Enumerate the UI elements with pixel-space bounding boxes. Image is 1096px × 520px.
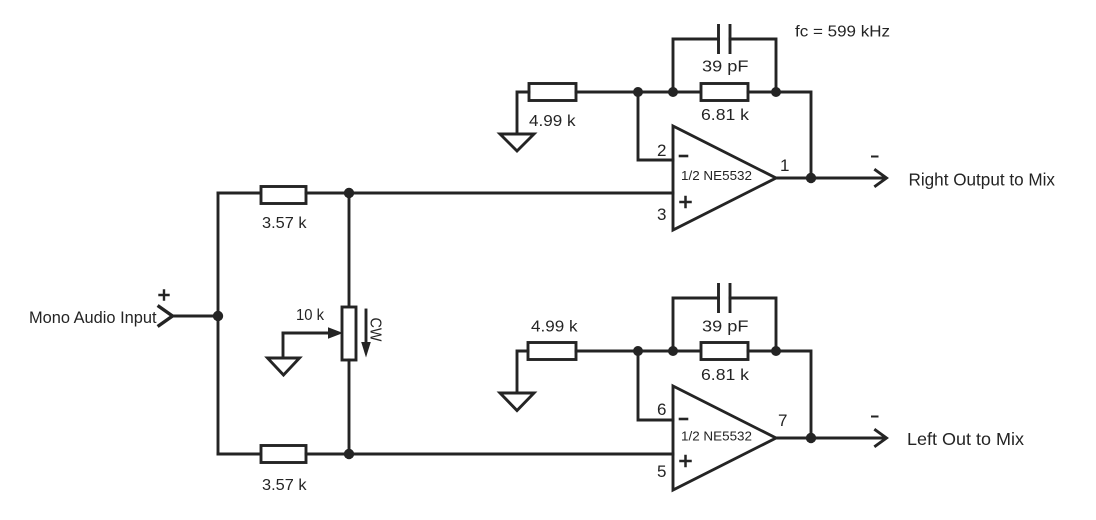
wire bottom rail to op-amp pin 5 <box>306 453 673 456</box>
resistor R5 4.99 k <box>528 343 576 360</box>
wire R5 left to ground <box>517 351 528 393</box>
wire feedback to output <box>748 92 811 178</box>
node feedback junction F <box>771 346 781 356</box>
wiper arrow <box>283 332 329 335</box>
ground (R5) <box>500 393 534 411</box>
svg-text:6.81 k: 6.81 k <box>701 367 750 384</box>
svg-text:7: 7 <box>778 411 787 430</box>
wire R3 left to ground <box>517 92 529 134</box>
resistor R1 3.57 k <box>261 187 306 204</box>
svg-text:1/2 NE5532: 1/2 NE5532 <box>681 168 752 183</box>
svg-text:1/2 NE5532: 1/2 NE5532 <box>681 429 752 444</box>
svg-text:1: 1 <box>780 156 789 175</box>
wire output with arrow <box>776 437 883 440</box>
node feedback junction E <box>668 346 678 356</box>
input polarity plus <box>160 291 169 300</box>
wire output with arrow <box>776 177 883 180</box>
svg-text:Left Out to Mix: Left Out to Mix <box>907 429 1024 449</box>
wire to pin 2 <box>638 92 673 160</box>
op-amp U1A <box>673 126 776 230</box>
dash artifact <box>872 156 878 158</box>
wire pot bottom lead <box>348 360 351 454</box>
node feedback junction D <box>633 346 643 356</box>
resistor R4 6.81 k <box>701 84 748 101</box>
potentiometer VR1 10 k <box>342 307 356 360</box>
svg-text:Right Output to Mix: Right Output to Mix <box>909 170 1056 190</box>
node feedback junction B <box>668 87 678 97</box>
resistor R3 4.99 k <box>529 84 576 101</box>
node output junction <box>806 433 816 443</box>
svg-text:3.57 k: 3.57 k <box>262 477 308 494</box>
svg-text:4.99 k: 4.99 k <box>529 113 577 130</box>
wire R3 to R4 <box>576 91 701 94</box>
svg-text:6.81 k: 6.81 k <box>701 107 750 124</box>
svg-text:4.99 k: 4.99 k <box>531 319 579 336</box>
ground (wiper) <box>268 358 300 375</box>
node top rail junction <box>344 188 354 198</box>
svg-text:Mono Audio Input: Mono Audio Input <box>29 309 157 327</box>
capacitor C2 39 pF <box>673 298 776 351</box>
wire wiper to ground <box>282 333 285 358</box>
node output junction <box>806 173 816 183</box>
wire R5 to R6 <box>576 350 701 353</box>
svg-text:CW: CW <box>367 318 384 342</box>
ground (R3) <box>500 134 534 151</box>
svg-text:39 pF: 39 pF <box>702 319 749 336</box>
svg-text:3: 3 <box>657 205 666 224</box>
wire bottom rail to R2 <box>218 453 261 456</box>
op-amp U1B <box>673 386 776 490</box>
svg-text:3.57 k: 3.57 k <box>262 215 308 232</box>
CW arrow <box>365 310 368 343</box>
wire to pin 6 <box>638 351 673 420</box>
svg-text:6: 6 <box>657 400 666 419</box>
node input junction <box>213 311 223 321</box>
wire pot top lead <box>348 193 351 307</box>
resistor R6 6.81 k <box>701 343 748 360</box>
resistor R2 3.57 k <box>261 446 306 463</box>
wire left bus vertical <box>217 193 220 454</box>
node feedback junction C <box>771 87 781 97</box>
svg-text:5: 5 <box>657 462 666 481</box>
wire input lead <box>173 315 218 318</box>
wire top rail to op-amp pin 3 <box>306 192 673 195</box>
capacitor C1 39 pF <box>673 39 776 92</box>
wire top rail to R1 <box>218 192 261 195</box>
svg-text:2: 2 <box>657 141 666 160</box>
input terminal chevron <box>159 307 173 326</box>
svg-text:39 pF: 39 pF <box>702 59 749 76</box>
node bottom rail junction <box>344 449 354 459</box>
node feedback junction A <box>633 87 643 97</box>
svg-text:10 k: 10 k <box>296 307 325 324</box>
wire feedback to output <box>748 351 811 438</box>
dash artifact <box>872 416 878 418</box>
svg-text:fc = 599 kHz: fc = 599 kHz <box>795 24 890 41</box>
